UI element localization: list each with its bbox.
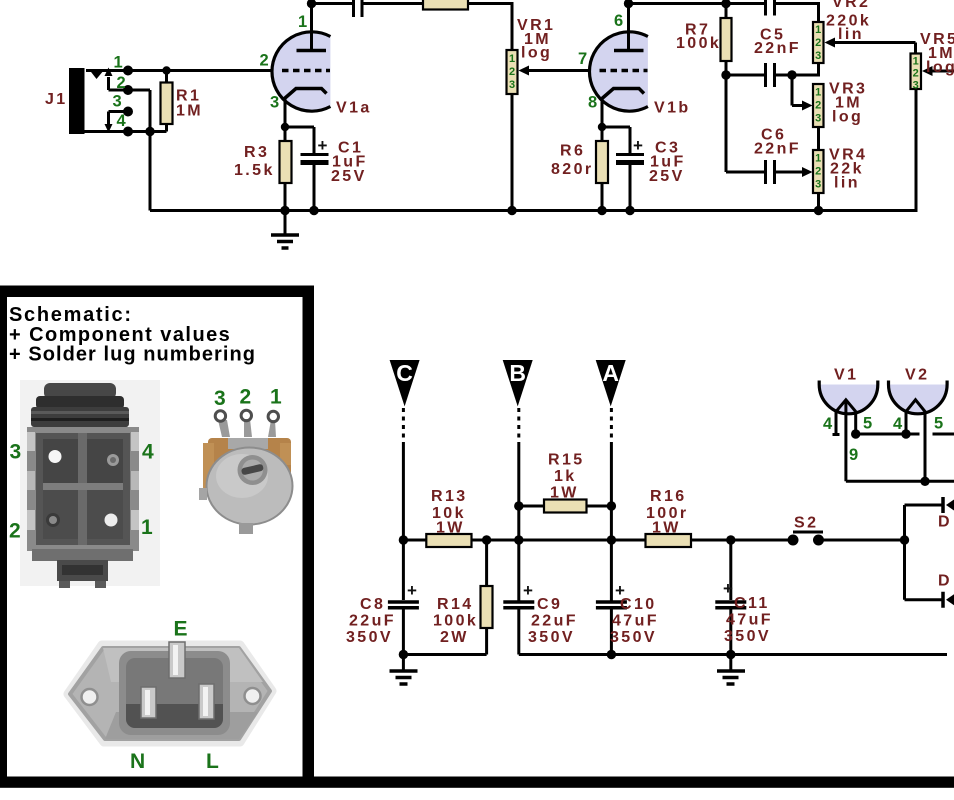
svg-text:100k: 100k [676,35,721,52]
svg-text:350V: 350V [346,629,393,646]
svg-text:1: 1 [141,516,153,539]
svg-text:6: 6 [614,12,623,30]
svg-text:7: 7 [578,50,587,68]
svg-text:2: 2 [117,74,126,92]
svg-text:C9: C9 [537,596,562,613]
svg-text:N: N [130,750,145,773]
svg-text:4: 4 [893,415,903,433]
svg-text:2: 2 [815,166,821,178]
svg-text:R13: R13 [431,488,468,505]
svg-text:22uF: 22uF [531,613,578,630]
svg-text:2: 2 [913,68,919,80]
svg-text:350V: 350V [724,628,771,645]
svg-text:820r: 820r [551,161,594,178]
svg-text:D: D [938,573,952,590]
svg-text:350V: 350V [610,629,657,646]
svg-text:+: + [723,579,733,598]
svg-text:8: 8 [588,94,597,112]
svg-text:1: 1 [913,56,919,68]
svg-text:C8: C8 [360,596,385,613]
svg-text:2: 2 [9,520,21,543]
svg-text:+: + [407,581,417,600]
svg-text:D: D [938,514,952,531]
svg-text:25V: 25V [331,168,367,185]
svg-text:S2: S2 [794,515,818,532]
svg-text:4: 4 [823,415,833,433]
svg-text:log: log [926,59,954,76]
svg-text:22nF: 22nF [754,40,801,57]
svg-text:L: L [206,750,219,773]
svg-text:2: 2 [815,100,821,112]
svg-text:lin: lin [838,26,864,43]
svg-text:25V: 25V [649,168,685,185]
svg-text:47uF: 47uF [612,613,659,630]
svg-text:3: 3 [270,94,279,112]
svg-text:3: 3 [113,93,122,111]
svg-text:R3: R3 [244,144,269,161]
svg-text:4: 4 [142,441,154,464]
svg-text:22uF: 22uF [349,613,396,630]
svg-text:V1a: V1a [336,100,372,117]
svg-text:22nF: 22nF [754,141,801,158]
svg-text:1W: 1W [550,485,579,502]
svg-text:2: 2 [509,66,515,78]
svg-text:J1: J1 [45,91,68,108]
svg-text:C11: C11 [734,595,770,612]
svg-text:3: 3 [509,79,515,91]
svg-text:1: 1 [815,24,821,36]
svg-text:1W: 1W [652,520,681,537]
svg-text:C10: C10 [620,596,657,613]
svg-text:3: 3 [214,387,226,410]
svg-text:V1: V1 [834,367,858,384]
svg-text:2: 2 [815,37,821,49]
svg-text:3: 3 [10,441,22,464]
svg-text:+: + [523,581,533,600]
svg-text:1k: 1k [554,468,577,485]
svg-text:3: 3 [815,50,821,62]
svg-text:lin: lin [834,175,860,192]
svg-text:R6: R6 [560,143,585,160]
svg-text:R16: R16 [650,488,687,505]
svg-text:1: 1 [298,13,307,31]
svg-text:3: 3 [815,113,821,125]
svg-text:C: C [396,360,413,386]
svg-text:100k: 100k [433,613,478,630]
svg-text:47uF: 47uF [726,612,773,629]
svg-text:Schematic:: Schematic: [9,304,133,326]
svg-text:1: 1 [815,87,821,99]
svg-text:5: 5 [934,415,943,433]
svg-text:2: 2 [240,386,252,409]
svg-text:9: 9 [849,446,858,464]
svg-text:+: + [318,136,328,155]
svg-text:A: A [602,360,619,386]
svg-text:V2: V2 [905,367,929,384]
svg-text:3: 3 [913,80,919,92]
svg-text:VR2: VR2 [832,0,870,11]
svg-text:V1b: V1b [654,100,691,117]
svg-text:1M: 1M [176,103,203,120]
svg-text:350V: 350V [528,629,575,646]
svg-text:E: E [174,618,188,641]
svg-text:2W: 2W [440,629,469,646]
svg-text:+: + [633,136,643,155]
svg-text:log: log [832,109,863,126]
svg-text:4: 4 [117,112,127,130]
svg-text:+ Solder lug numbering: + Solder lug numbering [9,344,256,366]
svg-text:R15: R15 [548,452,585,469]
svg-text:5: 5 [863,415,872,433]
svg-text:B: B [509,360,526,386]
svg-text:R14: R14 [437,596,474,613]
svg-text:1: 1 [270,386,282,409]
svg-text:2: 2 [260,52,269,70]
svg-text:1: 1 [815,153,821,165]
svg-text:1.5k: 1.5k [234,162,275,179]
svg-text:1: 1 [509,53,515,65]
svg-text:log: log [521,45,552,62]
svg-text:1: 1 [114,54,123,72]
svg-text:3: 3 [815,179,821,191]
svg-text:1W: 1W [436,520,465,537]
